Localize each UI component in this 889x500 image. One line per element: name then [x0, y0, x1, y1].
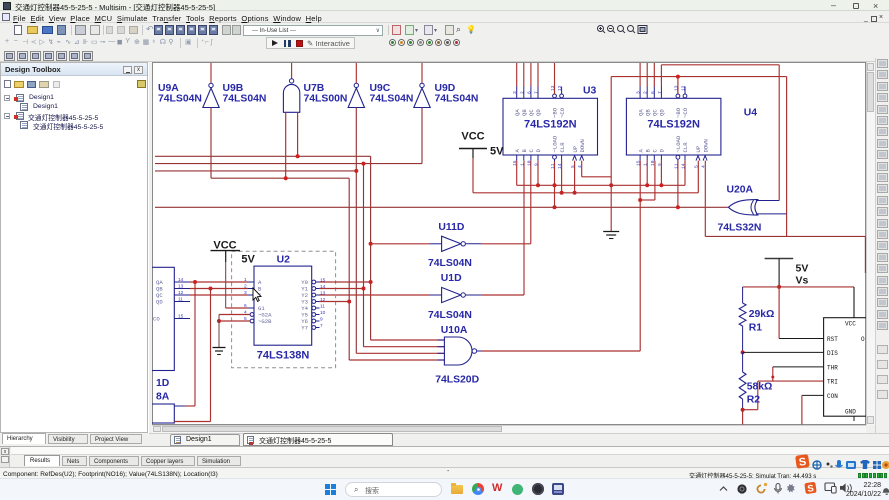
svg-text:VCC: VCC	[845, 321, 856, 328]
svg-text:DOWN: DOWN	[702, 139, 709, 152]
svg-text:11: 11	[673, 163, 679, 169]
svg-text:CLR: CLR	[559, 142, 566, 153]
svg-text:74LS192N: 74LS192N	[647, 119, 700, 131]
svg-text:U4: U4	[744, 108, 758, 119]
svg-text:74LS04N: 74LS04N	[428, 258, 472, 269]
svg-text:U11D: U11D	[438, 222, 464, 233]
svg-text:7: 7	[657, 91, 663, 94]
svg-text:2: 2	[519, 91, 525, 94]
svg-text:~LOAD: ~LOAD	[675, 135, 682, 152]
svg-text:11: 11	[320, 304, 325, 310]
svg-text:74LS04N: 74LS04N	[223, 94, 267, 105]
svg-text:11: 11	[550, 163, 556, 169]
svg-text:10: 10	[526, 160, 532, 166]
svg-text:GND: GND	[845, 409, 856, 416]
svg-text:74LS04N: 74LS04N	[428, 310, 472, 321]
svg-text:2024/10/22: 2024/10/22	[846, 491, 881, 498]
svg-text:DIS: DIS	[827, 350, 838, 357]
svg-text:3: 3	[512, 91, 518, 94]
svg-text:O: O	[861, 336, 865, 343]
svg-text:RST: RST	[827, 336, 838, 343]
svg-text:QB: QB	[521, 109, 528, 116]
svg-text:1: 1	[643, 163, 649, 166]
svg-text:15: 15	[320, 278, 326, 284]
svg-text:VCC: VCC	[213, 240, 236, 252]
svg-text:1D: 1D	[156, 378, 170, 389]
svg-text:8A: 8A	[156, 392, 170, 403]
svg-text:U1D: U1D	[441, 273, 462, 284]
svg-text:14: 14	[681, 163, 687, 169]
svg-text:CLR: CLR	[682, 142, 689, 153]
svg-text:U9D: U9D	[435, 83, 456, 94]
svg-text:UP: UP	[572, 145, 579, 152]
svg-text:4: 4	[577, 165, 583, 168]
svg-text:5V: 5V	[241, 254, 255, 266]
svg-text:U7B: U7B	[304, 83, 325, 94]
svg-text:14: 14	[320, 284, 326, 290]
svg-text:QC: QC	[652, 109, 659, 116]
svg-text:R1: R1	[749, 323, 763, 334]
svg-text:22:28: 22:28	[863, 482, 881, 489]
svg-text:74LS04N: 74LS04N	[370, 94, 414, 105]
svg-text:Vs: Vs	[796, 275, 809, 287]
svg-text:74LS20D: 74LS20D	[435, 375, 479, 386]
svg-text:R2: R2	[747, 395, 761, 406]
svg-text:13: 13	[550, 85, 556, 91]
svg-text:12: 12	[178, 290, 184, 296]
svg-text:15: 15	[178, 314, 184, 320]
svg-text:6: 6	[650, 91, 656, 94]
svg-text:74LS32N: 74LS32N	[718, 223, 762, 234]
svg-text:12: 12	[681, 85, 687, 91]
svg-text:U9C: U9C	[370, 83, 391, 94]
svg-text:QD: QD	[156, 299, 163, 306]
svg-text:U20A: U20A	[727, 185, 754, 196]
svg-text:5V: 5V	[490, 146, 504, 158]
svg-text:12: 12	[557, 85, 563, 91]
svg-text:~CO: ~CO	[559, 107, 566, 118]
svg-text:QA: QA	[637, 109, 644, 116]
svg-text:QD: QD	[535, 109, 542, 116]
svg-text:QB: QB	[644, 109, 651, 116]
svg-text:14: 14	[557, 163, 563, 169]
svg-text:QA: QA	[514, 109, 521, 116]
svg-text:74LS04N: 74LS04N	[435, 94, 479, 105]
svg-text:U9B: U9B	[223, 83, 244, 94]
svg-text:CON: CON	[827, 393, 838, 400]
svg-text:74LS00N: 74LS00N	[304, 94, 348, 105]
svg-text:11: 11	[178, 297, 183, 303]
svg-text:29kΩ: 29kΩ	[749, 309, 775, 320]
svg-text:7: 7	[534, 91, 540, 94]
svg-text:THR: THR	[827, 364, 838, 371]
svg-text:12: 12	[320, 297, 326, 303]
svg-text:15: 15	[512, 160, 518, 166]
svg-text:14: 14	[178, 277, 184, 283]
svg-text:DOWN: DOWN	[579, 139, 586, 152]
svg-text:CO: CO	[153, 316, 160, 323]
svg-text:9: 9	[534, 163, 540, 166]
svg-text:9: 9	[320, 317, 323, 323]
svg-text:74LS04N: 74LS04N	[158, 94, 202, 105]
svg-text:QD: QD	[659, 109, 666, 116]
svg-text:74LS192N: 74LS192N	[524, 119, 577, 131]
svg-text:UP: UP	[695, 145, 702, 152]
svg-text:5: 5	[570, 165, 576, 168]
svg-text:6: 6	[526, 91, 532, 94]
svg-text:~BO: ~BO	[552, 107, 559, 118]
svg-text:74LS138N: 74LS138N	[257, 350, 310, 362]
svg-text:~CO: ~CO	[682, 107, 689, 118]
svg-text:6: 6	[244, 303, 247, 309]
svg-text:U2: U2	[277, 255, 291, 266]
svg-text:U9A: U9A	[158, 83, 179, 94]
svg-text:~BO: ~BO	[675, 107, 682, 118]
svg-text:58kΩ: 58kΩ	[747, 382, 773, 393]
svg-text:3: 3	[636, 91, 642, 94]
svg-text:9: 9	[657, 163, 663, 166]
svg-text:U10A: U10A	[441, 325, 468, 336]
svg-text:10: 10	[320, 310, 326, 316]
svg-text:Y7: Y7	[301, 325, 308, 332]
svg-text:~LOAD: ~LOAD	[552, 135, 559, 152]
svg-text:5V: 5V	[796, 263, 809, 275]
svg-text:TRI: TRI	[827, 379, 838, 386]
svg-text:13: 13	[673, 85, 679, 91]
svg-text:13: 13	[320, 291, 326, 297]
svg-text:7: 7	[320, 323, 323, 329]
svg-text:13: 13	[178, 284, 184, 290]
svg-text:~G2B: ~G2B	[258, 318, 272, 325]
svg-text:2: 2	[643, 91, 649, 94]
svg-text:VCC: VCC	[461, 131, 484, 143]
svg-text:U3: U3	[583, 86, 597, 97]
svg-text:QC: QC	[528, 109, 535, 116]
